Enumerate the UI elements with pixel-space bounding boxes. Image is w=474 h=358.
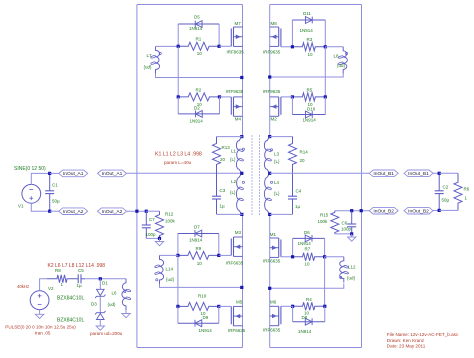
svg-text:Drawn: Ken Kranz: Drawn: Ken Kranz: [387, 338, 425, 343]
svg-text:1N914: 1N914: [298, 241, 312, 246]
wire V2 minus to ground: [39, 310, 41, 315]
svg-text:InOut_B1: InOut_B1: [408, 171, 429, 177]
svg-text:M7: M7: [235, 21, 242, 26]
junction L7 bottom on rail: [240, 76, 243, 79]
resistor R10: [178, 294, 219, 317]
svg-text:M3: M3: [235, 230, 242, 235]
flag InOut_A2 (source side): [59, 208, 88, 215]
wire R2 to M4 gate: [220, 96, 232, 98]
node R3 left junction: [291, 45, 294, 48]
phase dot L4: [270, 181, 272, 183]
resistor R15: [318, 211, 339, 234]
flag InOut_B2 (load side): [404, 207, 433, 214]
wire left box left rail (net InOut_A2): [136, 5, 138, 348]
wire right box left rail lower: [269, 214, 271, 347]
wire R7 to L12: [325, 256, 344, 258]
svg-text:L3: L3: [274, 152, 280, 157]
svg-text:D9: D9: [203, 315, 209, 320]
ground (L6): [122, 314, 130, 318]
svg-text:R14: R14: [300, 150, 309, 155]
capacitor C5: [77, 268, 86, 288]
wire mid rail left: [160, 284, 243, 287]
svg-text:IRF6635: IRF6635: [263, 328, 281, 333]
phase dot L14: [156, 279, 158, 281]
resistor R7: [293, 246, 325, 266]
wire C7 to R12 top: [146, 210, 159, 212]
svg-text:Date: 23 May 2011: Date: 23 May 2011: [387, 344, 426, 349]
wire M8 gate to R3: [281, 46, 293, 48]
wire C6 ground stub: [351, 234, 353, 237]
wire R13 top: [217, 136, 243, 138]
inductor L4: [264, 173, 280, 214]
wire R9 to M3 gate: [219, 254, 232, 256]
junction transformer bottom right: [268, 213, 271, 216]
svg-text:R7: R7: [305, 246, 311, 251]
wire D3 to ground: [99, 320, 101, 327]
inductor L1: [230, 137, 244, 174]
wire M2 gate to R5: [281, 96, 293, 98]
diode D5 1N914: [178, 15, 219, 47]
node R2 right junction: [218, 95, 221, 98]
svg-text:1N914: 1N914: [189, 26, 203, 31]
inductor L8: [334, 47, 348, 74]
svg-text:R15: R15: [320, 213, 329, 218]
resistor R4: [293, 297, 325, 316]
wire L7 top to node: [156, 45, 179, 47]
node R5 right junction: [324, 95, 327, 98]
text coupling K2: [48, 263, 106, 269]
capacitor C2: [435, 173, 450, 210]
svg-text:C6: C6: [342, 221, 348, 226]
svg-text:{ud}: {ud}: [144, 65, 153, 70]
svg-text:D11: D11: [303, 11, 311, 16]
svg-text:20: 20: [300, 158, 306, 163]
svg-text:IRF6635: IRF6635: [226, 261, 244, 266]
transistor M6 IRF6635: [263, 299, 281, 332]
svg-text:{L}: {L}: [274, 191, 280, 196]
svg-text:IRF9635: IRF9635: [263, 50, 281, 55]
svg-text:D6: D6: [304, 230, 310, 235]
svg-text:L14: L14: [166, 266, 174, 271]
svg-text:R5: R5: [307, 87, 313, 92]
transistor M1 IRF6635: [263, 232, 281, 264]
node R4 right junction: [323, 305, 326, 308]
svg-text:R13: R13: [222, 145, 231, 150]
svg-text:1N914: 1N914: [298, 329, 312, 334]
resistor R12: [156, 211, 176, 238]
junction transformer top right: [268, 135, 271, 138]
wire L8 bottom: [270, 74, 344, 78]
transistor M5 IRF6635: [228, 299, 246, 333]
svg-text:D1: D1: [102, 281, 108, 286]
text V2 frequency: [17, 284, 29, 289]
text coupling K1: [155, 152, 202, 165]
svg-text:40kHz: 40kHz: [17, 284, 29, 289]
inductor L3: [264, 137, 280, 174]
wire R10 to M5 gate: [219, 305, 232, 307]
node R2 left junction: [177, 95, 180, 98]
wire B2 to load: [433, 209, 439, 211]
svg-text:R3: R3: [307, 37, 313, 42]
wire left box right rail upper: [242, 5, 244, 137]
wire right box right rail (net InOut_B2): [361, 5, 363, 348]
wire node link lower-left: [177, 255, 179, 306]
flag InOut_B1 (converter side): [369, 170, 398, 177]
wire V1 minus to node A2: [31, 203, 49, 211]
svg-text:IRF9635: IRF9635: [227, 50, 245, 55]
svg-text:IRF6635: IRF6635: [263, 259, 281, 264]
wire node link upper-left: [177, 46, 179, 97]
svg-text:50µ: 50µ: [52, 199, 60, 204]
svg-text:10: 10: [197, 261, 203, 266]
svg-text:R10: R10: [198, 294, 207, 299]
svg-text:{ud}: {ud}: [108, 302, 117, 307]
capacitor C6: [341, 211, 356, 234]
svg-text:L1: L1: [231, 149, 237, 154]
node R9 left junction: [176, 254, 179, 257]
svg-text:param L=40u: param L=40u: [164, 160, 192, 165]
svg-text:100k: 100k: [165, 219, 176, 224]
node R4 left junction: [291, 305, 294, 308]
resistor R3: [292, 37, 325, 57]
capacitor C1: [45, 173, 60, 211]
svg-text:R4: R4: [306, 297, 312, 302]
svg-text:D2: D2: [194, 106, 200, 111]
transistor M2 IRF9635: [263, 89, 281, 122]
junction C7 branch: [145, 210, 148, 213]
node R9 right junction: [217, 254, 220, 257]
inductor L7: [144, 46, 160, 73]
wire M6 gate to R4: [281, 305, 293, 307]
phase dot L12: [340, 276, 342, 278]
wire R15/C6 bottom: [335, 233, 352, 235]
svg-text:C4: C4: [296, 189, 302, 194]
junction centre tap right: [268, 172, 271, 175]
svg-text:D3: D3: [91, 302, 97, 307]
svg-text:1N914: 1N914: [303, 118, 317, 123]
wire InOut_B1 from centre tap: [270, 172, 370, 174]
svg-text:{L}: {L}: [274, 159, 280, 164]
svg-text:IRF9635: IRF9635: [263, 89, 281, 94]
svg-text:InOut_B1: InOut_B1: [373, 171, 394, 177]
svg-text:1N914: 1N914: [199, 328, 213, 333]
junction transformer top left: [240, 135, 243, 138]
wire right box top rail: [270, 4, 362, 6]
svg-text:File Name: 12v-12v-AC-FET_b.as: File Name: 12v-12v-AC-FET_b.asc: [387, 332, 459, 337]
wire left box right rail lower: [242, 214, 244, 347]
svg-text:BZX84C10L: BZX84C10L: [57, 318, 84, 324]
svg-text:R2: R2: [196, 87, 202, 92]
text drawn by: [387, 338, 425, 343]
wire InOut_A1 to transformer centre tap: [127, 172, 242, 174]
junction C6 branch: [350, 209, 353, 212]
phase dot L8: [345, 52, 347, 54]
wire M1 gate to R7: [281, 256, 293, 258]
capacitor C3: [212, 170, 226, 214]
node R5 left junction: [291, 95, 294, 98]
svg-text:L6: L6: [112, 291, 118, 296]
svg-text:BZX84C10L: BZX84C10L: [57, 296, 84, 302]
wire D1 to D3: [99, 296, 101, 312]
junction InOut_B2 on right rail: [360, 209, 363, 212]
svg-text:InOut_B2: InOut_B2: [373, 208, 394, 214]
text file name: [387, 332, 459, 337]
wire left box top rail: [137, 4, 243, 6]
svg-text:{L}: {L}: [230, 157, 236, 162]
svg-text:D10: D10: [307, 107, 316, 112]
node A2 junction: [48, 210, 51, 213]
wire A1 to flag: [50, 172, 59, 174]
phase dot L1: [242, 148, 244, 150]
wire right box left rail upper: [269, 5, 271, 137]
ground (C7/R12): [155, 242, 163, 246]
wire InOut_A2 into box: [127, 210, 147, 212]
svg-text:IRF6635: IRF6635: [228, 328, 246, 333]
diode D2 1N914: [178, 97, 219, 124]
wire L14 top: [160, 254, 178, 256]
flag InOut_B2 (converter side): [369, 207, 398, 214]
junction transformer bottom left: [240, 213, 243, 216]
svg-text:R6: R6: [464, 187, 470, 192]
svg-text:10: 10: [308, 52, 314, 57]
diode D10 1N914: [292, 97, 325, 123]
resistor R9: [178, 246, 219, 266]
svg-text:100k: 100k: [318, 219, 329, 224]
junction InOut_A2 on left rail: [135, 210, 138, 213]
svg-text:C3: C3: [220, 188, 226, 193]
svg-text:C5: C5: [78, 268, 84, 273]
junction centre tap left: [240, 172, 243, 175]
inductor L14: [155, 255, 175, 284]
wire InOut_B2 out of box: [335, 210, 369, 212]
svg-text:D7: D7: [194, 225, 200, 230]
svg-text:20: 20: [220, 157, 226, 162]
svg-text:50µ: 50µ: [442, 198, 450, 203]
svg-text:R12: R12: [165, 212, 174, 217]
svg-text:1µ: 1µ: [220, 204, 226, 209]
svg-text:L8: L8: [334, 54, 340, 59]
resistor R5: [292, 87, 325, 107]
wire C4 bottom: [270, 213, 293, 215]
resistor R6: [454, 173, 470, 210]
svg-text:InOut_A2: InOut_A2: [102, 209, 123, 215]
wire node link upper-right: [324, 47, 326, 97]
wire L6 to ground: [125, 310, 127, 314]
phase dot L2: [242, 181, 244, 183]
diode D7 1N914: [178, 225, 219, 256]
wire L12 bottom (mid rail right): [270, 284, 344, 289]
svg-text:M8: M8: [271, 21, 278, 26]
svg-text:C1: C1: [52, 182, 58, 187]
svg-text:M1: M1: [270, 232, 277, 237]
phase dot L3: [270, 149, 272, 151]
wire R1 to M7 gate: [219, 45, 231, 47]
voltage source V2: [30, 286, 54, 310]
diode D9 1N914: [178, 306, 219, 333]
phase dot L7: [159, 52, 161, 54]
node R7 left junction: [291, 255, 294, 258]
svg-text:100p: 100p: [341, 227, 352, 232]
wire R14 top: [270, 136, 293, 138]
inductor L12: [340, 257, 356, 283]
wire R3 to L8: [325, 46, 343, 48]
wire C3 bottom: [217, 213, 243, 215]
zener D1 BZX84C10L: [57, 279, 108, 302]
svg-text:V1: V1: [18, 204, 24, 209]
wire V2 plus to R8: [40, 279, 47, 291]
svg-text:{L}: {L}: [230, 190, 236, 195]
junction mid rail on rail: [240, 286, 243, 289]
svg-text:{ud}: {ud}: [166, 277, 175, 282]
text tran directive: [35, 330, 51, 335]
svg-text:SINE(0 12 50): SINE(0 12 50): [14, 166, 46, 172]
svg-text:{ud}: {ud}: [337, 63, 346, 68]
ground (R15/C6): [348, 237, 356, 241]
text V2 pulse directive: [5, 325, 76, 330]
transformer core: [252, 136, 260, 216]
ground (V2): [35, 314, 43, 318]
flag InOut_A2 (converter side): [98, 208, 127, 215]
svg-text:C2: C2: [443, 185, 449, 190]
svg-text:100p: 100p: [146, 232, 157, 237]
svg-text:InOut_B2: InOut_B2: [408, 208, 429, 214]
flag InOut_A1 (converter side): [98, 170, 127, 177]
svg-text:L2: L2: [231, 179, 237, 184]
wire node link lower-right: [324, 257, 326, 307]
wire A2 to flag: [50, 210, 59, 212]
svg-text:1N914: 1N914: [189, 238, 203, 243]
svg-text:1µ: 1µ: [77, 283, 83, 288]
svg-text:L4: L4: [274, 180, 280, 185]
svg-text:R9: R9: [196, 246, 202, 251]
wire left box bottom rail: [137, 347, 243, 349]
flag InOut_A1 (source side): [59, 170, 88, 177]
resistor R8: [47, 268, 77, 287]
svg-text:L7: L7: [147, 53, 153, 58]
wire L7 bottom: [156, 74, 243, 78]
junction R12 bottom: [158, 237, 161, 240]
svg-text:10: 10: [197, 51, 203, 56]
text param ud directive: [90, 331, 123, 336]
text date: [387, 344, 426, 349]
capacitor C4: [288, 170, 302, 214]
node A1 junction: [48, 172, 51, 175]
capacitor C7: [142, 211, 156, 238]
voltage source V1: [14, 166, 46, 209]
svg-text:M6: M6: [270, 299, 277, 304]
node R1 left junction: [177, 45, 180, 48]
diode D11 1N914: [292, 11, 325, 47]
svg-text:InOut_A1: InOut_A1: [63, 171, 84, 177]
zener D3 BZX84C10L: [57, 302, 106, 324]
junction mid rail right: [268, 287, 271, 290]
wire C5 to L6: [85, 278, 126, 280]
svg-text:R8: R8: [55, 268, 61, 273]
svg-text:L12: L12: [348, 265, 356, 270]
svg-text:IRF9635: IRF9635: [226, 89, 244, 94]
svg-text:{ud}: {ud}: [347, 276, 356, 281]
svg-text:1µ: 1µ: [295, 204, 301, 209]
svg-text:PULSE(0 20 0 10n 10n 12.5u 25u: PULSE(0 20 0 10n 10n 12.5u 25u): [5, 325, 76, 330]
svg-text:InOut_A2: InOut_A2: [63, 209, 84, 215]
wire C7/R12 bottom: [146, 237, 159, 239]
svg-text:1N914: 1N914: [190, 119, 204, 124]
junction L8 bottom on rail: [268, 75, 271, 78]
node R7 right junction: [323, 255, 326, 258]
wire to ground stub: [159, 238, 161, 241]
svg-text:InOut_A1: InOut_A1: [102, 171, 123, 177]
phase dot L6: [124, 290, 126, 292]
ground (zener): [96, 326, 104, 330]
junction zener branch: [99, 277, 102, 280]
transistor M8 IRF9635: [263, 21, 281, 55]
diode D6 1N914: [293, 230, 325, 257]
svg-text:D5: D5: [194, 15, 200, 20]
diode D8 1N914: [293, 306, 325, 334]
svg-text:M2: M2: [271, 117, 278, 122]
junction C2 top: [438, 172, 441, 175]
transistor M7 IRF9635: [227, 21, 245, 55]
inductor L2: [230, 173, 244, 214]
svg-text:M5: M5: [236, 299, 243, 304]
wire R6 bottom: [439, 209, 458, 211]
flag InOut_B1 (load side): [404, 170, 433, 177]
svg-text:tran .05: tran .05: [35, 330, 51, 335]
transistor M3 IRF6635: [226, 230, 244, 266]
svg-text:M4: M4: [235, 117, 242, 122]
resistor R2: [178, 87, 219, 107]
node R3 right junction: [324, 45, 327, 48]
node R1 right junction: [218, 45, 221, 48]
svg-text:1N914: 1N914: [300, 28, 314, 33]
resistor R14: [289, 137, 309, 170]
resistor R13: [213, 137, 231, 170]
svg-text:K1 L1 L2 L3 L4 .998: K1 L1 L2 L3 L4 .998: [155, 152, 202, 158]
wire B1 to load: [433, 172, 439, 174]
wire right box bottom rail: [270, 347, 362, 349]
wire R6 top: [439, 172, 458, 174]
svg-text:10: 10: [305, 262, 311, 267]
svg-text:C7: C7: [149, 217, 155, 222]
inductor L6: [108, 279, 131, 310]
wire V1 plus to node A1: [31, 173, 49, 184]
node R10 left junction: [176, 305, 179, 308]
resistor R1: [178, 37, 219, 56]
transistor M4 IRF9635: [226, 89, 244, 122]
svg-text:D8: D8: [302, 315, 308, 320]
svg-text:R1: R1: [196, 37, 202, 42]
junction C2 bottom: [438, 209, 441, 212]
junction C6 bottom: [350, 232, 353, 235]
svg-text:V2: V2: [48, 286, 54, 291]
svg-text:param ud=200u: param ud=200u: [90, 331, 123, 336]
node R10 right junction: [217, 305, 220, 308]
